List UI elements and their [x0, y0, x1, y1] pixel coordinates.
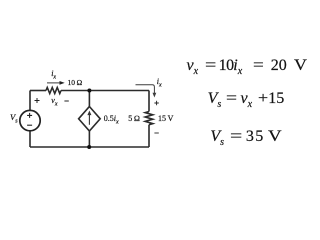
wire left vertical lower: [29, 131, 31, 147]
resistor 10 ohm zigzag: [46, 88, 61, 94]
current arrow ix top-left: [47, 81, 65, 85]
label 5 ohm: [128, 114, 140, 123]
label ix (over 10 ohm resistor): [51, 69, 56, 78]
wire middle branch upper: [88, 91, 90, 107]
wire middle branch lower: [88, 131, 90, 147]
wire top segment left: [30, 90, 46, 92]
wire right vertical upper: [148, 91, 150, 112]
voltage source Vs circle: [20, 110, 40, 130]
wire bottom: [30, 146, 149, 148]
polarity minus of vx: [64, 100, 68, 102]
equation Vs = vx + 15: [0, 89, 1, 91]
equation vx = 10ix = 20 V: [0, 56, 1, 58]
voltage source plus sign: [27, 113, 32, 118]
node dot top: [87, 89, 91, 93]
polarity plus of vx: [35, 98, 40, 103]
polarity minus of 15V: [154, 132, 158, 134]
label vx: [51, 96, 57, 105]
label 10 ohm: [68, 78, 83, 87]
dependent current source diamond 0.5ix: [79, 107, 101, 132]
label 15 V: [158, 114, 173, 123]
resistor 5 ohm zigzag: [145, 112, 153, 125]
voltage source minus sign: [27, 124, 32, 126]
wire left vertical upper: [29, 91, 31, 111]
label Vs: [10, 112, 18, 122]
node dot bottom: [87, 145, 91, 149]
wire right vertical lower: [148, 125, 150, 147]
polarity plus of 15V: [154, 101, 158, 105]
wire top segment right: [61, 90, 149, 92]
dependent source arrow up: [87, 111, 91, 125]
label ix (right branch): [157, 77, 162, 86]
current arrow ix right bent: [136, 85, 157, 98]
label 0.5ix: [104, 114, 119, 123]
equation Vs = 35 V: [0, 127, 1, 129]
